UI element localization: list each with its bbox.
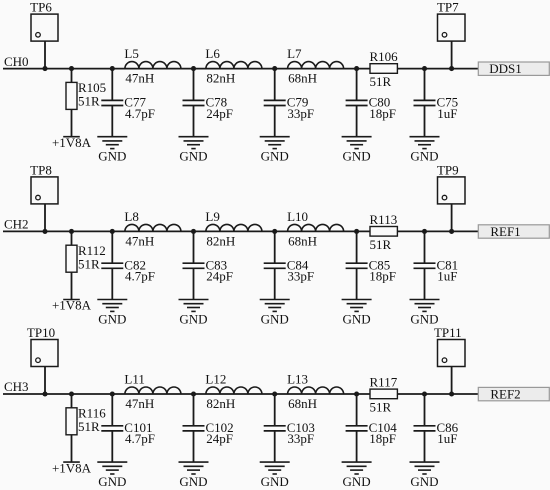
ground: [97, 300, 127, 327]
wire: [274, 431, 276, 462]
wire: [193, 268, 195, 299]
wire: [71, 69, 73, 83]
svg-text:1uF: 1uF: [437, 106, 457, 121]
svg-text:33pF: 33pF: [287, 431, 314, 446]
svg-text:L13: L13: [287, 372, 308, 387]
svg-text:+1V8A: +1V8A: [52, 460, 92, 475]
port REF1: [478, 224, 549, 239]
capacitor C80: [346, 95, 396, 121]
wire: [274, 394, 276, 426]
svg-text:L6: L6: [205, 46, 220, 61]
wire: [451, 204, 453, 232]
ground: [410, 462, 440, 489]
svg-text:GND: GND: [410, 149, 438, 164]
wire: [274, 106, 276, 137]
resistor R113: [370, 212, 398, 252]
test point TP6: [30, 0, 58, 41]
junction: [422, 391, 427, 396]
svg-text:68nH: 68nH: [288, 233, 317, 248]
ground: [342, 300, 372, 327]
svg-text:GND: GND: [261, 149, 289, 164]
wire: [111, 394, 113, 426]
svg-text:L7: L7: [287, 46, 302, 61]
junction: [272, 66, 277, 71]
wire: [71, 109, 73, 136]
svg-text:R113: R113: [370, 212, 398, 227]
svg-text:GND: GND: [179, 311, 207, 326]
svg-text:GND: GND: [179, 474, 207, 489]
svg-text:GND: GND: [261, 311, 289, 326]
svg-text:L8: L8: [124, 209, 138, 224]
svg-text:TP7: TP7: [437, 0, 459, 15]
wire: [71, 394, 73, 408]
svg-text:33pF: 33pF: [287, 269, 314, 284]
ground: [179, 300, 209, 327]
svg-text:82nH: 82nH: [206, 233, 235, 248]
junction: [422, 66, 427, 71]
svg-text:GND: GND: [343, 311, 371, 326]
junction: [110, 66, 115, 71]
svg-text:REF1: REF1: [490, 224, 520, 239]
resistor R106: [370, 49, 399, 89]
wire: [111, 431, 113, 462]
ground: [260, 137, 290, 164]
svg-text:4.7pF: 4.7pF: [125, 269, 155, 284]
svg-text:68nH: 68nH: [288, 396, 317, 411]
wire: [424, 268, 426, 299]
svg-text:82nH: 82nH: [206, 396, 235, 411]
svg-text:TP6: TP6: [30, 0, 52, 15]
capacitor C85: [346, 257, 396, 283]
svg-text:L9: L9: [205, 209, 219, 224]
wire: [193, 106, 195, 137]
wire: [71, 435, 73, 462]
test point TP10: [27, 325, 58, 366]
svg-text:REF2: REF2: [490, 387, 520, 402]
junction: [449, 229, 454, 234]
svg-text:51R: 51R: [370, 74, 392, 89]
junction: [69, 391, 74, 396]
resistor R112: [66, 243, 106, 272]
wire: [111, 231, 113, 263]
junction: [422, 229, 427, 234]
inductor L10: [287, 209, 344, 249]
capacitor C78: [183, 95, 233, 121]
wire: [424, 394, 426, 426]
wire: [193, 69, 195, 101]
wire: [356, 431, 358, 462]
junction: [272, 229, 277, 234]
junction: [354, 229, 359, 234]
svg-text:68nH: 68nH: [288, 71, 317, 86]
inductor L7: [287, 46, 344, 86]
junction: [191, 66, 196, 71]
ground: [410, 300, 440, 327]
ground: [179, 462, 209, 489]
test point TP9: [437, 163, 465, 204]
inductor L8: [124, 209, 180, 249]
svg-text:GND: GND: [98, 311, 126, 326]
junction: [272, 391, 277, 396]
svg-text:51R: 51R: [78, 257, 100, 272]
junction: [42, 66, 47, 71]
svg-text:TP8: TP8: [30, 163, 52, 178]
svg-text:GND: GND: [98, 474, 126, 489]
svg-text:47nH: 47nH: [125, 71, 154, 86]
junction: [69, 229, 74, 234]
wire: [451, 41, 453, 69]
svg-text:24pF: 24pF: [206, 106, 233, 121]
svg-text:+1V8A: +1V8A: [52, 135, 92, 150]
wire: [44, 41, 46, 69]
capacitor C86: [414, 420, 459, 446]
capacitor C79: [264, 95, 314, 121]
wire: [356, 394, 358, 426]
capacitor C81: [414, 257, 459, 283]
wire: [44, 204, 46, 232]
junction: [69, 66, 74, 71]
power +1V8A: [52, 298, 92, 313]
capacitor C101: [101, 420, 155, 446]
junction: [449, 391, 454, 396]
wire: [424, 231, 426, 263]
ground: [179, 137, 209, 164]
wire: [274, 69, 276, 101]
svg-text:+1V8A: +1V8A: [52, 298, 92, 313]
svg-text:GND: GND: [410, 474, 438, 489]
power +1V8A: [52, 135, 92, 150]
junction: [191, 391, 196, 396]
ground: [260, 300, 290, 327]
wire: [193, 431, 195, 462]
junction: [42, 391, 47, 396]
wire: [44, 367, 46, 395]
wire: [424, 106, 426, 137]
test point TP11: [434, 325, 465, 366]
wire: [3, 230, 478, 232]
capacitor C82: [101, 257, 155, 283]
test point TP8: [30, 163, 58, 204]
capacitor C83: [183, 257, 233, 283]
ground: [410, 137, 440, 164]
svg-text:18pF: 18pF: [369, 106, 396, 121]
junction: [191, 229, 196, 234]
wire: [111, 106, 113, 137]
port REF2: [478, 387, 549, 402]
svg-text:33pF: 33pF: [287, 106, 314, 121]
svg-text:TP10: TP10: [27, 325, 55, 340]
svg-text:TP11: TP11: [434, 325, 462, 340]
svg-text:GND: GND: [343, 149, 371, 164]
svg-text:82nH: 82nH: [206, 71, 235, 86]
svg-text:18pF: 18pF: [369, 269, 396, 284]
svg-text:CH3: CH3: [4, 379, 29, 394]
svg-text:4.7pF: 4.7pF: [125, 106, 155, 121]
junction: [110, 391, 115, 396]
wire: [111, 69, 113, 101]
wire: [356, 69, 358, 101]
svg-text:24pF: 24pF: [206, 431, 233, 446]
wire: [3, 393, 478, 395]
svg-text:L5: L5: [124, 46, 138, 61]
wire: [424, 69, 426, 101]
wire: [71, 231, 73, 245]
capacitor C84: [264, 257, 314, 283]
svg-text:L11: L11: [124, 372, 144, 387]
wire: [71, 272, 73, 299]
svg-text:L10: L10: [287, 209, 308, 224]
junction: [110, 229, 115, 234]
svg-text:51R: 51R: [78, 419, 100, 434]
ground: [342, 137, 372, 164]
test point TP7: [437, 0, 465, 41]
capacitor C103: [264, 420, 315, 446]
inductor L11: [124, 372, 180, 412]
inductor L6: [205, 46, 262, 86]
inductor L12: [205, 372, 262, 412]
port DDS1: [478, 61, 549, 76]
ground: [342, 462, 372, 489]
junction: [449, 66, 454, 71]
svg-text:47nH: 47nH: [125, 396, 154, 411]
svg-text:R117: R117: [370, 375, 398, 390]
ground: [97, 137, 127, 164]
svg-text:CH0: CH0: [4, 54, 29, 69]
inductor L9: [205, 209, 262, 249]
svg-text:R106: R106: [370, 49, 399, 64]
svg-text:18pF: 18pF: [369, 431, 396, 446]
resistor R116: [66, 406, 106, 435]
capacitor C104: [346, 420, 398, 446]
wire: [274, 231, 276, 263]
wire: [274, 268, 276, 299]
inductor L5: [124, 46, 180, 86]
svg-text:24pF: 24pF: [206, 269, 233, 284]
capacitor C77: [101, 95, 155, 121]
svg-text:51R: 51R: [78, 94, 100, 109]
svg-text:CH2: CH2: [4, 217, 29, 232]
capacitor C102: [183, 420, 234, 446]
junction: [42, 229, 47, 234]
svg-text:1uF: 1uF: [437, 431, 457, 446]
ground: [97, 462, 127, 489]
svg-text:1uF: 1uF: [437, 269, 457, 284]
capacitor C75: [414, 95, 459, 121]
wire: [3, 68, 478, 70]
wire: [356, 268, 358, 299]
wire: [356, 231, 358, 263]
svg-text:DDS1: DDS1: [489, 61, 522, 76]
junction: [354, 66, 359, 71]
ground: [260, 462, 290, 489]
inductor L13: [287, 372, 344, 412]
junction: [354, 391, 359, 396]
svg-text:4.7pF: 4.7pF: [125, 431, 155, 446]
wire: [451, 367, 453, 395]
svg-text:TP9: TP9: [437, 163, 459, 178]
svg-text:47nH: 47nH: [125, 233, 154, 248]
svg-text:51R: 51R: [370, 400, 392, 415]
wire: [111, 268, 113, 299]
resistor R105: [66, 80, 106, 109]
wire: [356, 106, 358, 137]
wire: [424, 431, 426, 462]
svg-text:51R: 51R: [370, 237, 392, 252]
power +1V8A: [52, 460, 92, 475]
wire: [193, 231, 195, 263]
svg-text:L12: L12: [205, 372, 226, 387]
svg-text:GND: GND: [261, 474, 289, 489]
svg-text:GND: GND: [179, 149, 207, 164]
svg-text:GND: GND: [343, 474, 371, 489]
resistor R117: [370, 375, 398, 415]
svg-text:GND: GND: [98, 149, 126, 164]
wire: [193, 394, 195, 426]
